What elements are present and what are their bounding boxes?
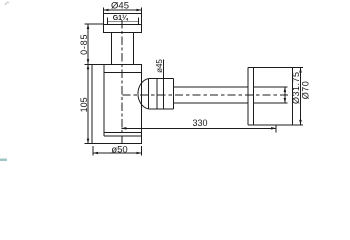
dimension ø50 extension lines bbox=[92, 146, 94, 156]
top flange rect bbox=[104, 14, 142, 25]
arrow 330 left bbox=[121, 127, 126, 130]
body inner top line bbox=[104, 72, 142, 74]
svg-text:Ø70: Ø70 bbox=[300, 81, 310, 100]
body outline bbox=[92, 64, 142, 143]
dimension 105 extension bottom bbox=[85, 143, 93, 145]
svg-text:G1¼: G1¼ bbox=[113, 14, 129, 22]
arrow 0-85 bottom bbox=[87, 59, 90, 64]
dimension ø45 leader line bbox=[163, 60, 165, 79]
body seam line 1 bbox=[104, 132, 142, 134]
pipe top bbox=[174, 86, 248, 88]
dimension Ø70 line bbox=[300, 68, 302, 125]
pipe bottom bbox=[174, 102, 248, 104]
arrow Ø70 bottom bbox=[299, 120, 302, 125]
body inner vertical bbox=[103, 64, 105, 136]
svg-text:330: 330 bbox=[192, 118, 207, 128]
arrow 330 right bbox=[271, 127, 276, 130]
dimension 0-85 extension line bbox=[85, 23, 104, 25]
dimension Ø31.75 line bbox=[284, 87, 286, 103]
horizontal dashed centerline bbox=[123, 94, 291, 96]
wall cup rect bbox=[248, 67, 292, 69]
dimension 105 extension top bbox=[85, 63, 93, 65]
arrow ø50 left bbox=[93, 152, 98, 155]
svg-text:105: 105 bbox=[79, 97, 89, 112]
arrow 0-85 top bbox=[87, 24, 90, 29]
arrow Ø70 top bbox=[299, 68, 302, 73]
stray mark top-left bbox=[5, 2, 9, 5]
wall collar ring bbox=[247, 68, 249, 125]
arrow Ø31.75 bottom bbox=[284, 98, 287, 103]
body seam line 2 bbox=[104, 135, 142, 137]
outlet nut rings bbox=[148, 78, 173, 80]
neck tube bbox=[111, 33, 113, 65]
stray mark bottom-left bbox=[0, 159, 7, 162]
svg-text:ø45: ø45 bbox=[155, 59, 164, 73]
dimension 330 extension line bbox=[275, 125, 277, 133]
svg-text:Ø45: Ø45 bbox=[111, 0, 129, 11]
arrow 105 bottom bbox=[87, 139, 90, 144]
arrow Ø45 right bbox=[137, 9, 142, 12]
dimension Ø45 line bbox=[104, 9, 142, 11]
arrow Ø31.75 top bbox=[284, 87, 287, 92]
arrow Ø45 left bbox=[104, 9, 109, 12]
arrow ø50 right bbox=[137, 152, 142, 155]
dimension Ø45 extension lines bbox=[103, 7, 105, 13]
svg-text:0-85: 0-85 bbox=[79, 34, 89, 55]
vertical dashed centerline bbox=[121, 20, 123, 145]
dimension Ø70 extension lines bbox=[292, 67, 303, 69]
dimension 105 line bbox=[87, 64, 89, 143]
locknut rect bbox=[104, 25, 142, 33]
arrow 105 top bbox=[87, 64, 90, 69]
G1¼ dimension line bbox=[108, 20, 139, 22]
dimension ø50 line bbox=[93, 152, 142, 154]
svg-text:ø50: ø50 bbox=[111, 144, 127, 155]
dimension 330 line bbox=[121, 127, 276, 129]
outlet nut rounded cap arc bbox=[138, 79, 148, 109]
dimension 0-85 line bbox=[87, 24, 89, 64]
